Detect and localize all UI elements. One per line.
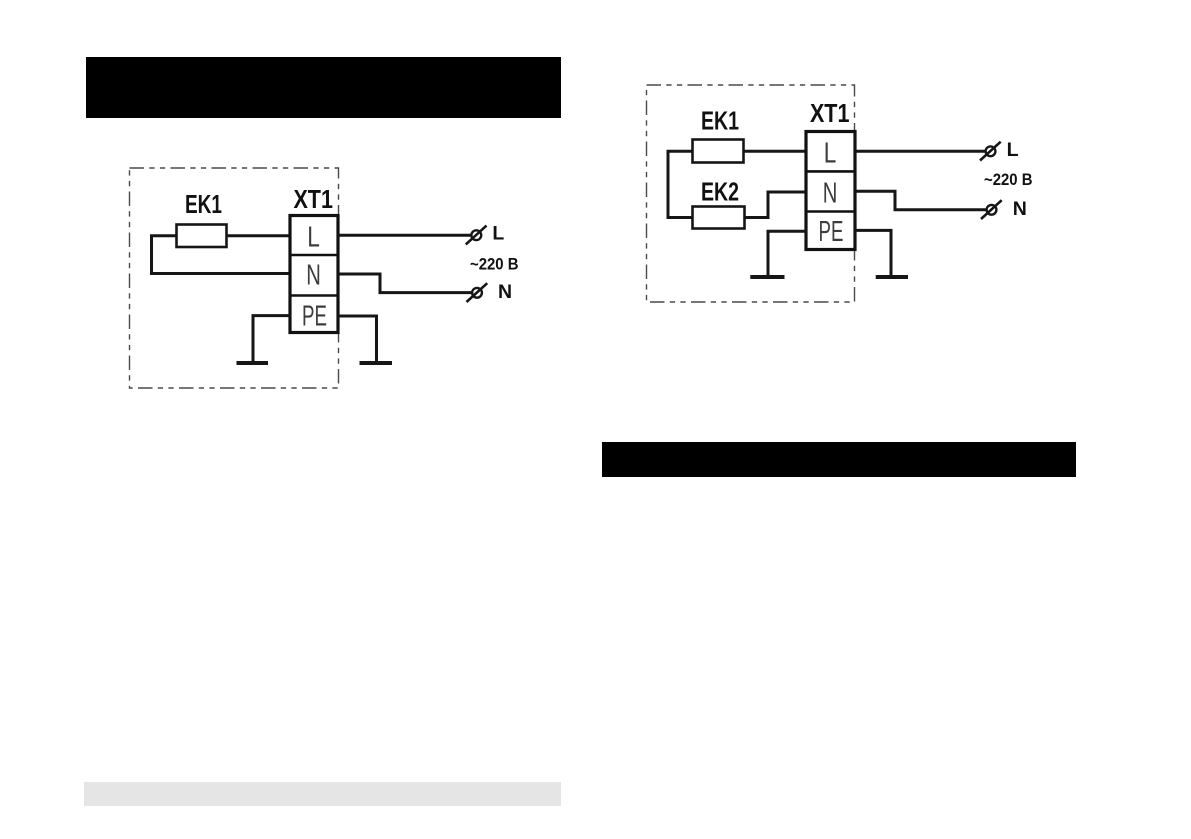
wire XT1:PE to left ground (fig.2)	[768, 231, 807, 275]
svg-text:PE: PE	[302, 301, 327, 333]
wire XT1:PE to right ground (fig.2)	[855, 230, 891, 275]
left ground (fig.2)	[750, 275, 784, 279]
wire XT1:N to terminal N	[338, 274, 471, 293]
wire XT1:PE to left ground	[253, 316, 291, 362]
svg-text:N: N	[1013, 198, 1027, 220]
wire XT1:L to terminal L	[338, 234, 471, 237]
terminal circle L (fig.2)	[986, 146, 996, 156]
svg-text:L: L	[307, 222, 320, 254]
heater EK1 resistor (fig.2)	[693, 140, 744, 163]
svg-text:XT1: XT1	[810, 98, 850, 128]
svg-text:EK1: EK1	[701, 106, 739, 136]
XT1 divider L/N (fig.2)	[806, 170, 855, 173]
svg-text:L: L	[492, 223, 504, 245]
wire EK2 right to XT1:N	[744, 192, 807, 218]
wire XT1:L to terminal L (fig.2)	[855, 150, 985, 153]
svg-text:~220 В: ~220 В	[984, 171, 1033, 189]
wire EK1 right to XT1:L (fig.2)	[743, 150, 807, 153]
svg-text:PE: PE	[819, 216, 844, 248]
svg-text:EK2: EK2	[701, 177, 739, 207]
svg-text:N: N	[498, 281, 512, 303]
svg-text:N: N	[823, 178, 838, 210]
XT1 divider N/PE (fig.2)	[806, 210, 855, 213]
heater EK2 (resistor)	[693, 207, 745, 229]
wire XT1:N to terminal N (fig.2)	[855, 191, 986, 210]
wire EK1 left loop to XT1:N	[152, 236, 292, 274]
XT1 divider N/PE	[290, 294, 338, 297]
terminal circle L	[471, 230, 481, 240]
terminal circle N (fig.2)	[987, 205, 997, 215]
svg-text:L: L	[824, 138, 837, 170]
enclosure dash-dot boundary box	[130, 168, 339, 388]
wire EK1 left to EK2 left	[668, 151, 693, 217]
XT1 divider L/N	[290, 254, 338, 257]
svg-text:XT1: XT1	[293, 184, 333, 214]
svg-text:N: N	[306, 260, 321, 292]
wire EK1 right to XT1:L	[226, 234, 291, 237]
terminal block XT1 (fig.2)	[806, 132, 855, 250]
heater EK1 (resistor)	[177, 225, 227, 248]
right ground (fig.2)	[876, 275, 908, 279]
redacted title bar 1	[86, 57, 561, 118]
svg-text:EK1: EK1	[185, 189, 222, 219]
right ground	[360, 361, 393, 365]
footer highlight bar	[84, 782, 561, 806]
terminal circle N	[472, 288, 482, 298]
redacted title bar 2	[602, 442, 1076, 477]
wire XT1:PE to right ground	[338, 316, 377, 362]
left ground	[237, 361, 269, 365]
enclosure dash-dot boundary box (fig.2)	[647, 85, 855, 302]
svg-text:L: L	[1007, 139, 1019, 161]
svg-text:~220 В: ~220 В	[470, 256, 519, 274]
terminal block XT1	[290, 216, 338, 333]
